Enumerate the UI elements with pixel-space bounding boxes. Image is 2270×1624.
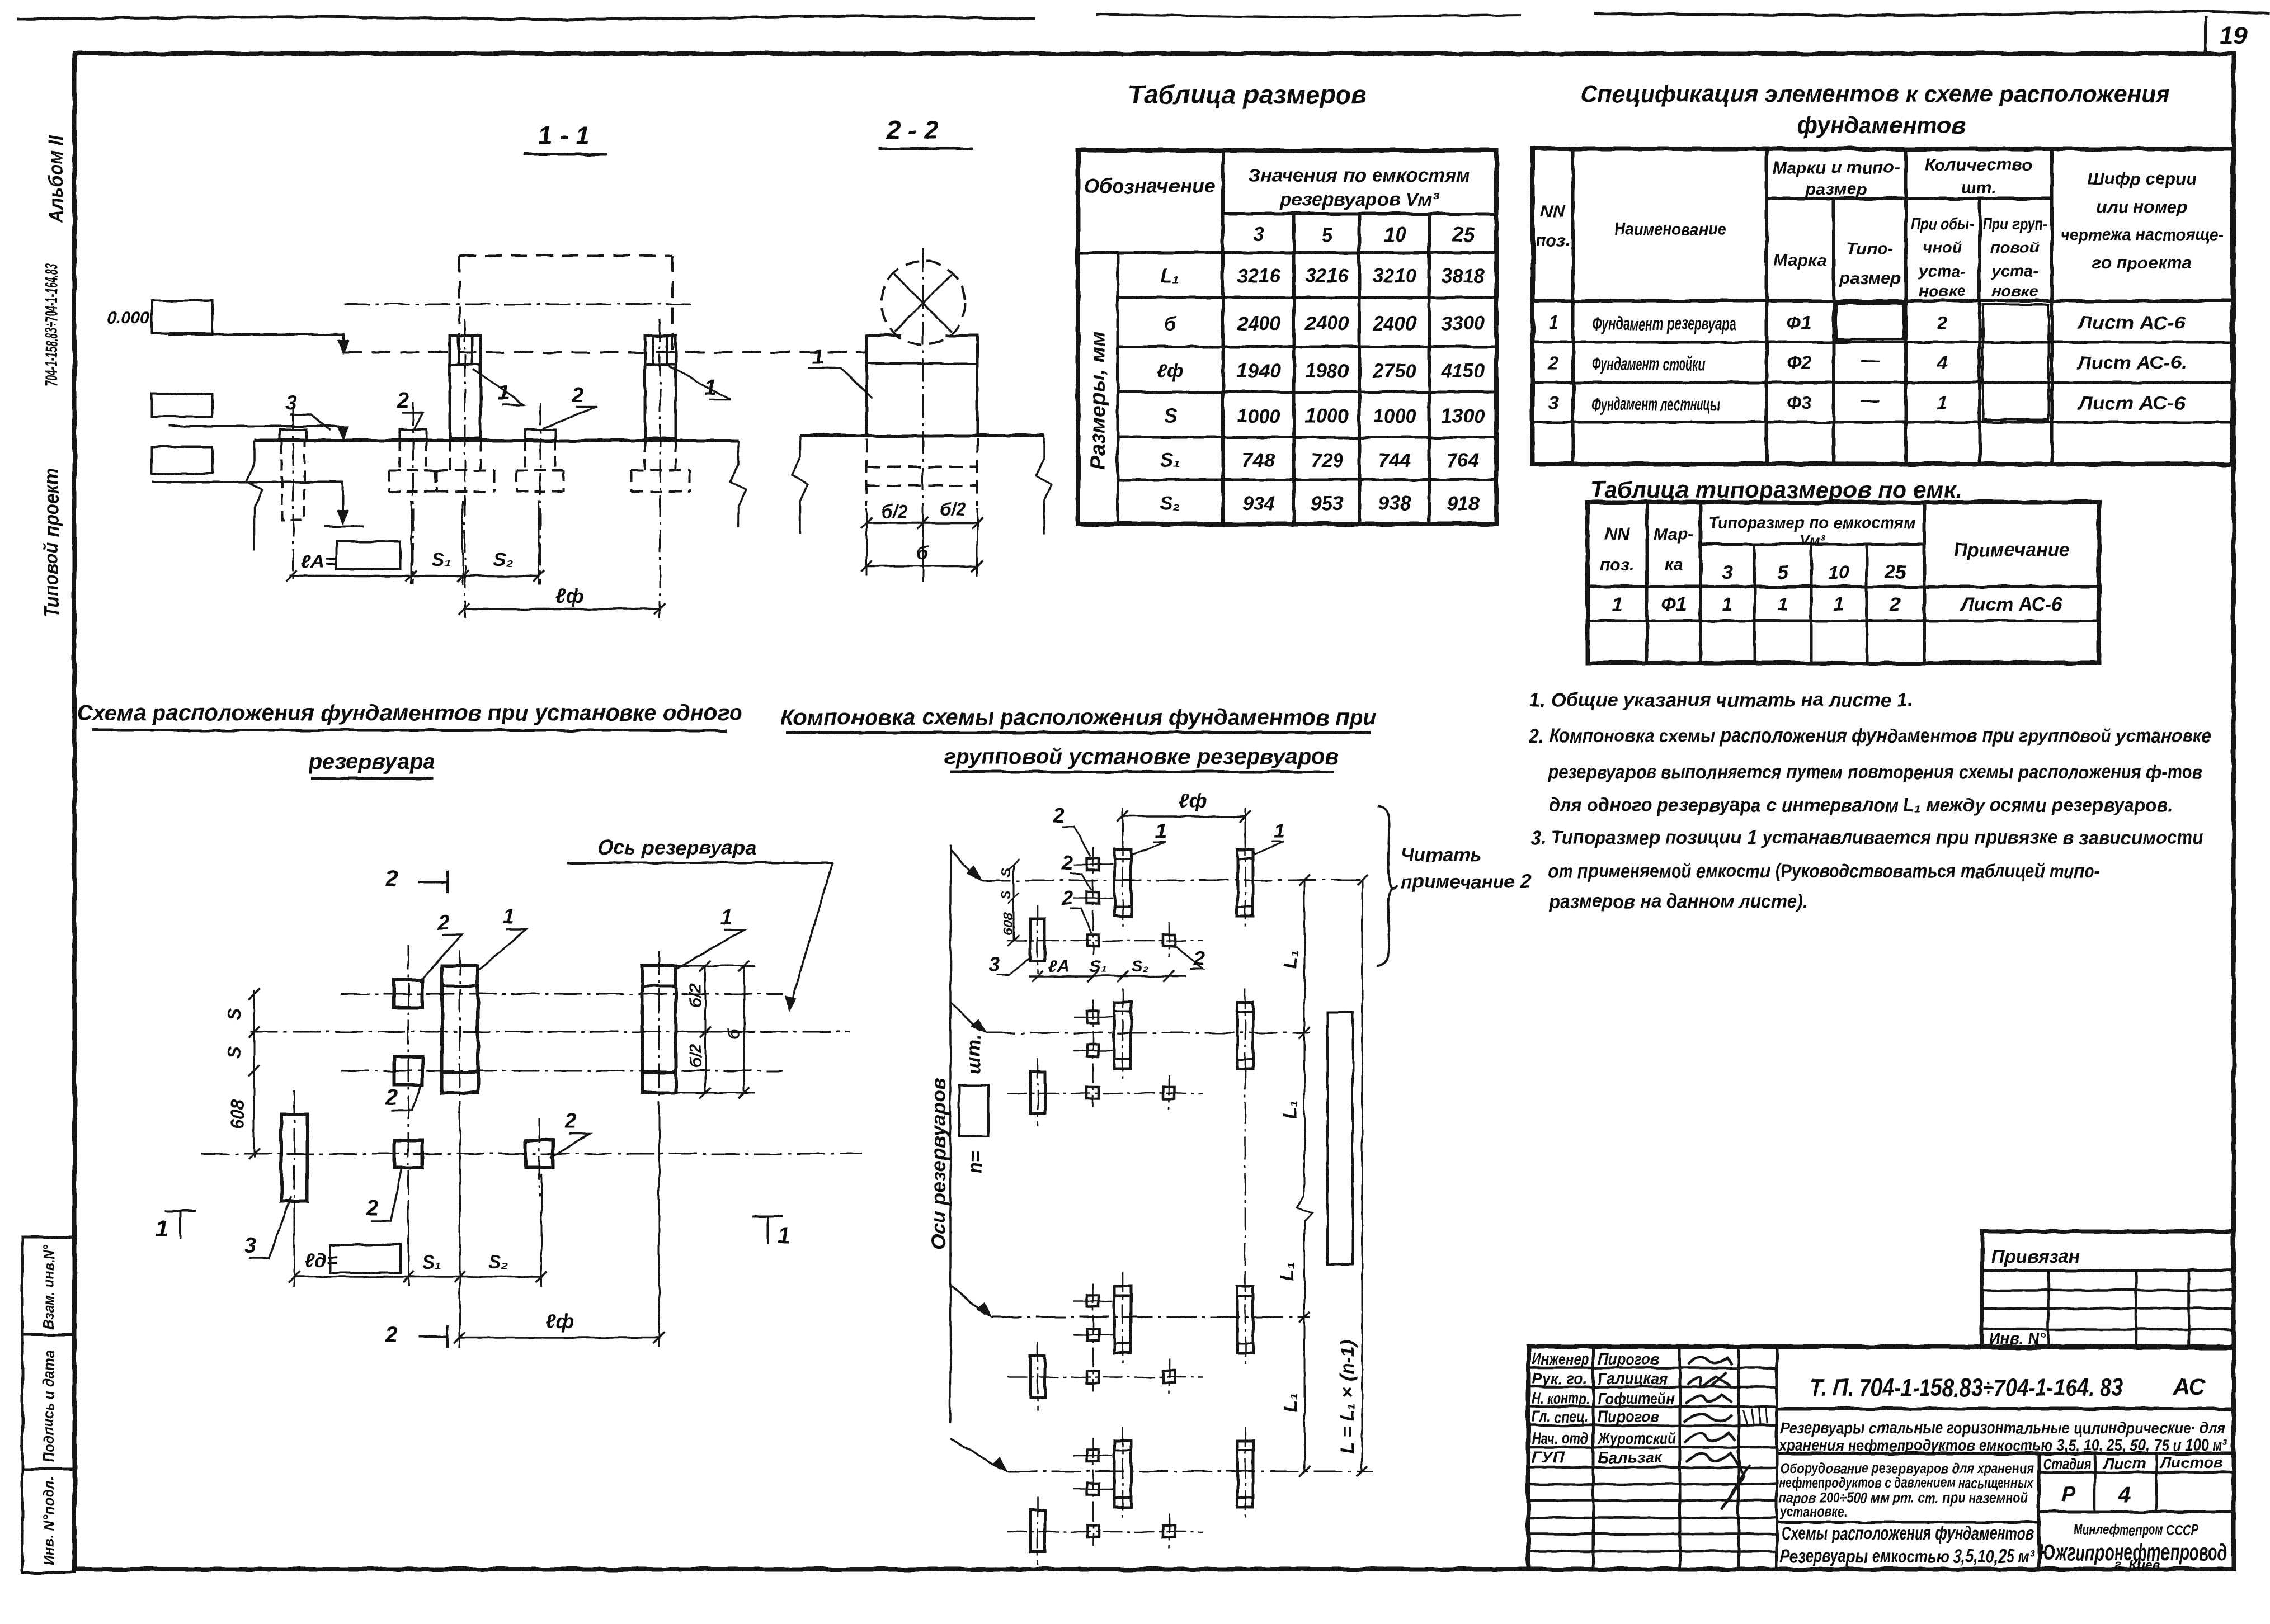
svg-text:3: 3 xyxy=(1253,223,1264,246)
svg-text:Привязан: Привязан xyxy=(1991,1246,2080,1267)
svg-text:Инженер: Инженер xyxy=(1532,1351,1589,1368)
svg-text:2: 2 xyxy=(1937,312,1948,333)
svg-text:2: 2 xyxy=(1061,886,1073,909)
svg-text:1940: 1940 xyxy=(1237,360,1280,382)
svg-text:резервуара: резервуара xyxy=(308,749,435,774)
svg-text:Фундамент резервуара: Фундамент резервуара xyxy=(1592,313,1736,334)
svg-text:2: 2 xyxy=(385,1323,398,1347)
svg-text:L₁: L₁ xyxy=(1277,1262,1298,1281)
svg-text:б/2: б/2 xyxy=(686,1044,705,1068)
svg-text:Гофштейн: Гофштейн xyxy=(1598,1390,1675,1408)
svg-text:S₁: S₁ xyxy=(432,549,451,570)
svg-text:L₁: L₁ xyxy=(1280,1394,1301,1412)
svg-text:Лист АС-6: Лист АС-6 xyxy=(2078,312,2186,333)
svg-text:резервуаров Vм³: резервуаров Vм³ xyxy=(1279,189,1440,210)
svg-text:729: 729 xyxy=(1311,450,1344,471)
svg-text:2400: 2400 xyxy=(1236,313,1280,334)
svg-text:примечание 2: примечание 2 xyxy=(1401,871,1531,893)
svg-text:Лист: Лист xyxy=(2102,1455,2146,1472)
svg-text:Лист АС-6: Лист АС-6 xyxy=(1960,594,2062,615)
svg-text:Минлефтепром СССР: Минлефтепром СССР xyxy=(2074,1521,2198,1538)
svg-text:групповой установке резервуа: групповой установке резервуаров xyxy=(944,744,1339,769)
svg-text:918: 918 xyxy=(1447,493,1480,514)
svg-text:Размеры, мм: Размеры, мм xyxy=(1086,331,1110,470)
svg-text:S₂: S₂ xyxy=(1160,493,1181,514)
svg-text:3216: 3216 xyxy=(1305,265,1349,287)
svg-text:S₁: S₁ xyxy=(422,1252,442,1273)
svg-text:S₂: S₂ xyxy=(1131,957,1148,976)
svg-text:1000: 1000 xyxy=(1305,405,1349,427)
svg-text:953: 953 xyxy=(1311,493,1344,514)
svg-text:ℓф: ℓф xyxy=(545,1310,573,1333)
svg-text:4: 4 xyxy=(2118,1484,2130,1507)
svg-text:Типо-: Типо- xyxy=(1847,239,1894,258)
svg-text:2. Компоновка схемы располо: 2. Компоновка схемы расположения фундаме… xyxy=(1529,725,2211,747)
svg-text:Таблица типоразмеров по емк: Таблица типоразмеров по емк. xyxy=(1590,476,1962,503)
svg-text:2: 2 xyxy=(1548,352,1559,373)
svg-text:ка: ка xyxy=(1664,555,1683,574)
svg-text:уста-: уста- xyxy=(1990,262,2038,280)
svg-text:Ф1: Ф1 xyxy=(1661,594,1686,615)
svg-text:L₁: L₁ xyxy=(1280,1100,1301,1118)
svg-text:г. Киев: г. Киев xyxy=(2114,1557,2160,1573)
svg-text:Читать: Читать xyxy=(1401,844,1481,866)
svg-text:фундаментов: фундаментов xyxy=(1797,112,1966,138)
svg-text:1: 1 xyxy=(502,905,514,929)
svg-text:Н. контр.: Н. контр. xyxy=(1532,1390,1590,1408)
svg-text:нефтепродуктов с давлением: нефтепродуктов с давлением насыщенных xyxy=(1779,1474,2034,1491)
svg-text:1: 1 xyxy=(1834,594,1844,615)
svg-text:S₂: S₂ xyxy=(493,549,514,570)
svg-text:3: 3 xyxy=(1548,393,1558,413)
svg-text:Пирогов: Пирогов xyxy=(1598,1351,1659,1368)
svg-text:Марка: Марка xyxy=(1773,250,1827,270)
svg-text:3210: 3210 xyxy=(1373,265,1416,287)
svg-text:S₁: S₁ xyxy=(1090,957,1107,976)
svg-text:Значения по емкостям: Значения по емкостям xyxy=(1249,165,1471,186)
svg-text:2: 2 xyxy=(385,867,398,891)
svg-text:Компоновка схемы расположения: Компоновка схемы расположения фундаменто… xyxy=(780,705,1377,730)
svg-text:1: 1 xyxy=(1612,594,1623,615)
svg-text:5: 5 xyxy=(1778,562,1789,583)
svg-text:Гл. спец.: Гл. спец. xyxy=(1532,1408,1589,1426)
svg-text:1: 1 xyxy=(1274,819,1285,842)
svg-text:хранения нефтепродуктов емко: хранения нефтепродуктов емкостью 3,5, 10… xyxy=(1778,1437,2228,1455)
svg-text:ℓА=: ℓА= xyxy=(301,551,336,573)
svg-text:размер: размер xyxy=(1839,268,1901,288)
svg-text:S: S xyxy=(224,1008,244,1021)
svg-text:3: 3 xyxy=(285,391,297,415)
svg-text:1: 1 xyxy=(778,1223,790,1248)
svg-text:Vм³: Vм³ xyxy=(1800,532,1826,549)
svg-text:б/2: б/2 xyxy=(686,983,705,1008)
svg-text:1: 1 xyxy=(1778,594,1788,615)
svg-text:Инв. N°подл.: Инв. N°подл. xyxy=(40,1476,57,1566)
svg-text:764: 764 xyxy=(1447,450,1479,471)
svg-text:1: 1 xyxy=(156,1216,168,1241)
svg-text:4: 4 xyxy=(1937,352,1947,373)
svg-text:2: 2 xyxy=(1061,851,1073,874)
svg-text:Ось резервуара: Ось резервуара xyxy=(597,836,756,859)
svg-text:установке.: установке. xyxy=(1779,1503,1847,1520)
svg-text:S₂: S₂ xyxy=(488,1252,508,1273)
svg-text:2: 2 xyxy=(437,911,449,934)
svg-text:25: 25 xyxy=(1884,562,1906,583)
svg-text:Бальзак: Бальзак xyxy=(1598,1449,1663,1467)
svg-text:2: 2 xyxy=(1053,804,1065,827)
svg-text:Схемы расположения фундамент: Схемы расположения фундаментов xyxy=(1781,1523,2034,1543)
svg-text:АС: АС xyxy=(2172,1373,2206,1400)
svg-text:0.000: 0.000 xyxy=(107,309,149,327)
svg-text:б: б xyxy=(725,1028,743,1039)
svg-text:Фундамент лестницы: Фундамент лестницы xyxy=(1592,394,1720,414)
svg-text:б/2: б/2 xyxy=(940,499,966,520)
svg-text:ℓд=: ℓд= xyxy=(305,1250,338,1271)
svg-text:Лист АС-6.: Лист АС-6. xyxy=(2076,352,2186,373)
svg-text:го проекта: го проекта xyxy=(2092,253,2192,272)
svg-text:Галицкая: Галицкая xyxy=(1598,1370,1668,1388)
svg-text:19: 19 xyxy=(2220,22,2247,49)
svg-text:Типоразмер по емкостям: Типоразмер по емкостям xyxy=(1709,513,1916,532)
svg-text:NN: NN xyxy=(1541,201,1566,221)
svg-text:Т. П. 704-1-158.83÷704-1-164.: Т. П. 704-1-158.83÷704-1-164. 83 xyxy=(1810,1374,2123,1401)
svg-text:ℓф: ℓф xyxy=(1156,360,1184,382)
svg-text:NN: NN xyxy=(1605,524,1630,544)
svg-text:б/2: б/2 xyxy=(882,502,908,522)
svg-text:повой: повой xyxy=(1990,239,2040,257)
svg-text:новке: новке xyxy=(1919,282,1966,300)
svg-text:поз.: поз. xyxy=(1600,555,1635,574)
svg-text:Примечание: Примечание xyxy=(1953,540,2070,561)
svg-text:Типовой проект: Типовой проект xyxy=(40,469,63,618)
svg-text:2: 2 xyxy=(397,389,409,413)
svg-text:2: 2 xyxy=(385,1086,398,1110)
svg-text:от применяемой емкости (Рук: от применяемой емкости (Руководствоватьс… xyxy=(1548,861,2100,882)
svg-text:резервуаров выполняется путе: резервуаров выполняется путем повторения… xyxy=(1548,762,2202,783)
svg-text:новке: новке xyxy=(1991,282,2038,300)
svg-text:поз.: поз. xyxy=(1536,230,1570,250)
svg-text:1: 1 xyxy=(498,381,510,405)
svg-text:Схема расположения фундаментов: Схема расположения фундаментов при устан… xyxy=(77,701,743,725)
svg-text:S₁: S₁ xyxy=(1160,450,1180,471)
svg-text:1980: 1980 xyxy=(1305,360,1349,382)
svg-text:25: 25 xyxy=(1451,223,1475,246)
svg-text:Количество: Количество xyxy=(1925,155,2032,174)
svg-text:для одного резервуара с ин: для одного резервуара с интервалом L₁ ме… xyxy=(1548,795,2173,816)
svg-text:ℓф: ℓф xyxy=(555,584,583,607)
svg-text:n=: n= xyxy=(965,1150,986,1173)
svg-text:S: S xyxy=(999,868,1014,877)
svg-text:4150: 4150 xyxy=(1440,360,1485,382)
svg-text:При обы-: При обы- xyxy=(1911,215,1974,233)
svg-text:Подпись и дата: Подпись и дата xyxy=(40,1351,57,1462)
svg-text:чертежа настояще-: чертежа настояще- xyxy=(2060,225,2224,244)
svg-text:2: 2 xyxy=(1193,947,1205,970)
svg-text:2: 2 xyxy=(1890,594,1901,615)
svg-text:ℓф: ℓф xyxy=(1179,789,1207,812)
svg-text:1: 1 xyxy=(812,345,824,369)
svg-text:1: 1 xyxy=(705,376,717,399)
svg-text:2750: 2750 xyxy=(1372,360,1416,382)
svg-text:3818: 3818 xyxy=(1441,265,1485,287)
svg-text:3216: 3216 xyxy=(1237,265,1280,287)
svg-text:Таблица размеров: Таблица размеров xyxy=(1128,80,1367,109)
svg-text:934: 934 xyxy=(1242,493,1275,514)
svg-text:Обозначение: Обозначение xyxy=(1084,174,1216,197)
svg-text:Пирогов: Пирогов xyxy=(1598,1408,1659,1426)
svg-text:Оси резервуаров: Оси резервуаров xyxy=(927,1078,950,1250)
svg-text:1000: 1000 xyxy=(1237,405,1280,427)
svg-text:2400: 2400 xyxy=(1372,313,1416,334)
svg-text:размер: размер xyxy=(1805,179,1867,199)
svg-text:2: 2 xyxy=(571,384,583,407)
svg-text:3. Типоразмер позиции 1 уст: 3. Типоразмер позиции 1 устанавливается … xyxy=(1531,827,2204,848)
svg-text:S: S xyxy=(1164,405,1176,427)
svg-text:1: 1 xyxy=(1156,819,1167,842)
svg-text:Журотский: Журотский xyxy=(1596,1430,1676,1448)
svg-text:L₁: L₁ xyxy=(1280,950,1301,969)
svg-text:Ф1: Ф1 xyxy=(1787,312,1811,333)
svg-text:1300: 1300 xyxy=(1441,405,1485,427)
svg-text:1000: 1000 xyxy=(1373,405,1416,427)
svg-text:Стадия: Стадия xyxy=(2043,1455,2091,1472)
svg-text:2 - 2: 2 - 2 xyxy=(886,115,938,144)
svg-text:Ф3: Ф3 xyxy=(1787,393,1811,413)
svg-text:608: 608 xyxy=(228,1099,248,1130)
svg-text:или номер: или номер xyxy=(2097,197,2188,216)
svg-text:уста-: уста- xyxy=(1918,262,1966,280)
svg-text:размеров на данном листе).: размеров на данном листе). xyxy=(1548,891,1809,912)
svg-text:10: 10 xyxy=(1383,223,1406,246)
svg-text:Марки и типо-: Марки и типо- xyxy=(1772,158,1900,177)
svg-text:Лист АС-6: Лист АС-6 xyxy=(2078,393,2186,413)
svg-text:2: 2 xyxy=(366,1197,378,1220)
svg-text:1 - 1: 1 - 1 xyxy=(538,121,590,150)
svg-text:Шифр серии: Шифр серии xyxy=(2087,169,2197,188)
svg-text:—: — xyxy=(1861,350,1880,370)
svg-text:Резервуары емкостью 3,5,10,2: Резервуары емкостью 3,5,10,25 м³ xyxy=(1780,1546,2034,1566)
svg-text:5: 5 xyxy=(1321,223,1333,246)
svg-text:б: б xyxy=(1164,313,1177,334)
svg-text:S: S xyxy=(999,890,1014,899)
svg-text:—: — xyxy=(1861,390,1880,410)
svg-text:ГУП: ГУП xyxy=(1532,1449,1565,1467)
svg-text:1. Общие указания читать н: 1. Общие указания читать на листе 1. xyxy=(1529,690,1913,711)
svg-text:чной: чной xyxy=(1923,239,1962,257)
svg-text:Резервуары стальные горизон: Резервуары стальные горизонтальные цилин… xyxy=(1780,1419,2225,1437)
svg-text:10: 10 xyxy=(1828,562,1849,583)
svg-text:шт.: шт. xyxy=(963,1035,985,1074)
svg-text:Ф2: Ф2 xyxy=(1787,352,1812,373)
svg-text:L₁: L₁ xyxy=(1161,265,1180,287)
svg-text:2400: 2400 xyxy=(1304,313,1349,334)
svg-text:ℓА: ℓА xyxy=(1048,957,1069,976)
svg-text:1: 1 xyxy=(720,905,732,929)
svg-text:Р: Р xyxy=(2061,1483,2075,1506)
svg-text:Фундамент стойки: Фундамент стойки xyxy=(1592,353,1706,374)
svg-text:Наименование: Наименование xyxy=(1614,219,1726,239)
svg-text:Спецификация элементов к сх: Спецификация элементов к схеме расположе… xyxy=(1581,81,2170,107)
svg-text:Рук. го.: Рук. го. xyxy=(1532,1370,1588,1388)
svg-text:б: б xyxy=(916,542,929,564)
svg-text:L = L₁ × (n-1): L = L₁ × (n-1) xyxy=(1337,1340,1358,1454)
svg-text:Альбом II: Альбом II xyxy=(44,135,67,223)
svg-text:2: 2 xyxy=(564,1110,577,1133)
svg-text:S: S xyxy=(224,1046,244,1059)
svg-text:Мар-: Мар- xyxy=(1654,524,1694,544)
svg-text:3300: 3300 xyxy=(1441,313,1485,334)
svg-text:1: 1 xyxy=(1937,393,1947,413)
svg-text:704-1-158.83÷704-1-164.83: 704-1-158.83÷704-1-164.83 xyxy=(41,263,61,386)
svg-text:744: 744 xyxy=(1378,450,1411,471)
svg-text:938: 938 xyxy=(1378,493,1411,514)
svg-text:При груп-: При груп- xyxy=(1982,215,2047,233)
svg-text:Нач. отд: Нач. отд xyxy=(1532,1430,1589,1448)
svg-text:3: 3 xyxy=(989,952,1000,975)
svg-text:748: 748 xyxy=(1242,450,1275,471)
svg-text:шт.: шт. xyxy=(1961,177,1996,197)
svg-text:3: 3 xyxy=(244,1234,256,1258)
svg-text:1: 1 xyxy=(1722,594,1733,615)
svg-text:3: 3 xyxy=(1722,562,1733,583)
svg-text:608: 608 xyxy=(1001,912,1016,935)
svg-text:Листов: Листов xyxy=(2160,1454,2223,1471)
svg-text:Взам. инв.N°: Взам. инв.N° xyxy=(40,1245,57,1329)
svg-text:1: 1 xyxy=(1548,312,1558,333)
